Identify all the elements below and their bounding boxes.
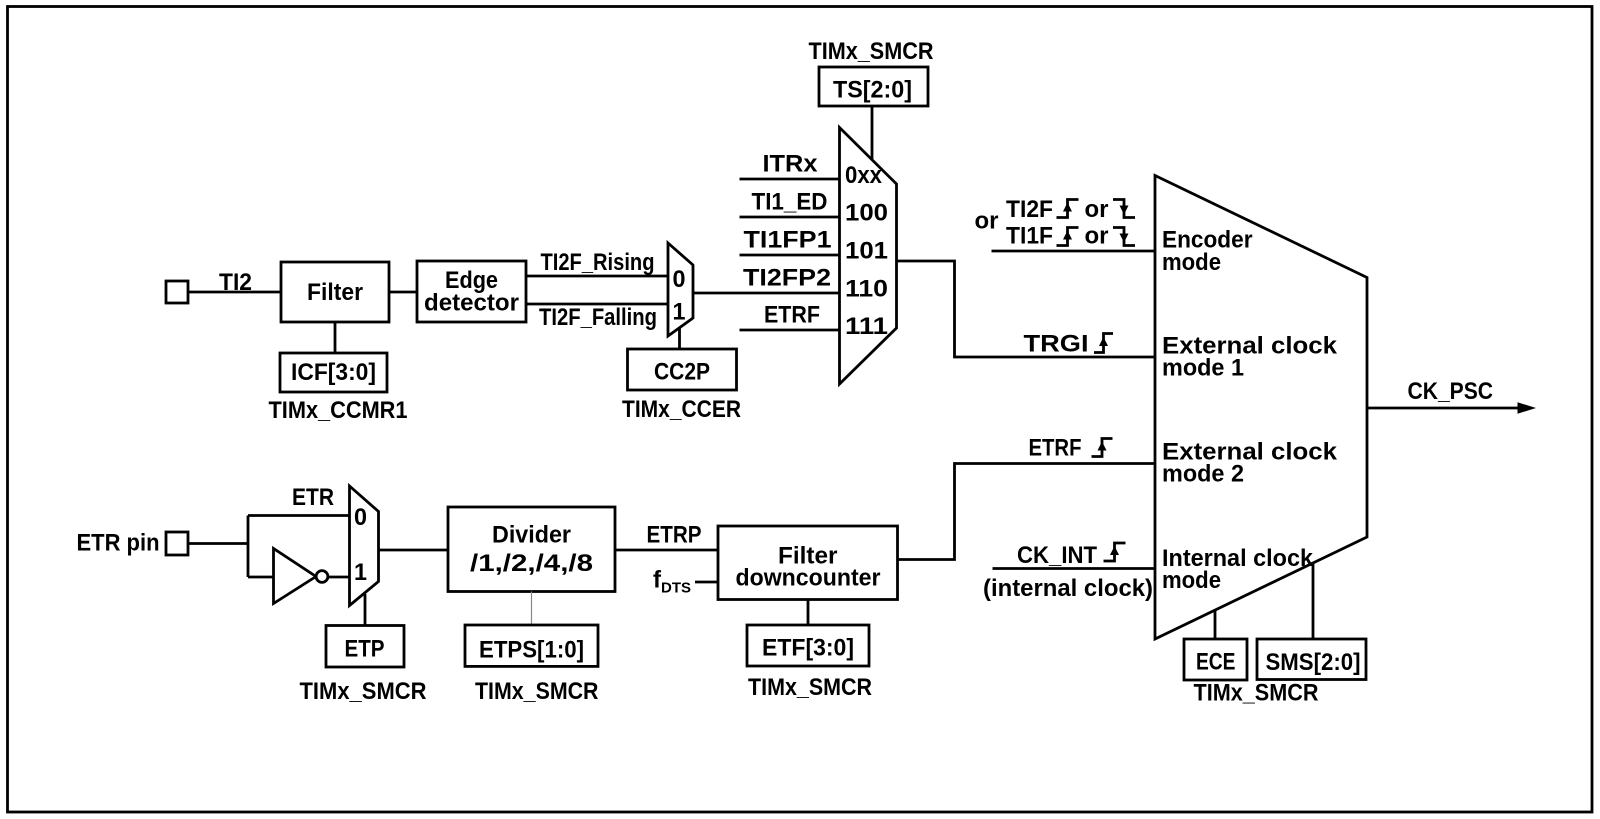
rising edge symbol (TI2F) (1057, 200, 1079, 218)
input pin TI2 (166, 281, 188, 303)
svg-text:detector: detector (424, 290, 519, 317)
svg-text:or: or (1085, 196, 1109, 223)
register box ECE (1184, 639, 1247, 680)
svg-text:mode: mode (1162, 249, 1221, 276)
register box ETPS[1:0] (465, 625, 598, 666)
svg-text:TIMx_SMCR: TIMx_SMCR (300, 678, 427, 705)
svg-text:1: 1 (354, 559, 367, 586)
svg-text:0: 0 (673, 266, 686, 293)
svg-text:0: 0 (354, 504, 367, 531)
wire mode selector to ECE register (1214, 610, 1217, 639)
wire f_DTS to filter downcounter (695, 581, 718, 584)
wire TI2F_Rising (526, 275, 668, 278)
svg-text:100: 100 (845, 200, 888, 227)
svg-text:Divider: Divider (492, 522, 571, 549)
svg-text:TI2F: TI2F (1006, 196, 1053, 223)
svg-text:fDTS: fDTS (653, 567, 691, 597)
rising edge symbol (ETRF) (1092, 439, 1113, 457)
wire TI1_ED input (740, 216, 840, 219)
svg-text:ETRF: ETRF (1029, 435, 1082, 462)
svg-text:CK_PSC: CK_PSC (1408, 378, 1494, 405)
svg-text:TI1FP1: TI1FP1 (744, 227, 832, 254)
svg-text:ETPS[1:0]: ETPS[1:0] (479, 637, 584, 664)
input pin ETR (166, 532, 188, 555)
wire TI2F_Falling (526, 303, 668, 306)
svg-text:TRGI: TRGI (1024, 331, 1089, 358)
register box ICF[3:0] (280, 353, 387, 392)
svg-text:or: or (1085, 223, 1109, 250)
svg-text:ICF[3:0]: ICF[3:0] (291, 359, 376, 386)
register box CC2P (628, 349, 737, 390)
svg-text:TI1F: TI1F (1006, 223, 1053, 250)
register box TS[2:0] (819, 67, 928, 106)
svg-text:ETRP: ETRP (647, 522, 702, 549)
wire ITRx input (740, 178, 840, 181)
svg-text:TI2FP2: TI2FP2 (743, 265, 831, 292)
svg-text:TIMx_SMCR: TIMx_SMCR (1194, 680, 1319, 707)
register box ETP (326, 626, 404, 668)
svg-text:mode 1: mode 1 (1162, 355, 1244, 382)
svg-text:ETR pin: ETR pin (77, 530, 160, 557)
junction vertical wire (247, 516, 250, 578)
wire to inverter input (248, 576, 274, 579)
svg-text:or: or (975, 208, 999, 235)
svg-text:TIMx_CCER: TIMx_CCER (622, 396, 741, 423)
svg-text:0xx: 0xx (845, 162, 883, 189)
wire TRGI (trigger mux output to mode selector) (897, 261, 1156, 357)
svg-text:/1,/2,/4,/8: /1,/2,/4,/8 (470, 550, 593, 577)
divider block /1,/2,/4,/8 (448, 507, 615, 592)
svg-text:ETRF: ETRF (764, 302, 820, 329)
mux trigger selector TS (840, 128, 897, 385)
register box ETF[3:0] (747, 625, 869, 666)
edge detector block (417, 261, 526, 322)
wire ETRF input to trigger mux (740, 329, 840, 332)
svg-text:TI1_ED: TI1_ED (752, 189, 828, 216)
filter F (input filter) (281, 262, 389, 322)
falling edge symbol (TI2F) (1113, 200, 1135, 218)
svg-text:111: 111 (845, 313, 888, 340)
svg-text:mode 2: mode 2 (1162, 461, 1244, 488)
svg-text:TI2: TI2 (219, 269, 252, 296)
wire inverter to polarity mux (328, 576, 350, 579)
svg-text:mode: mode (1162, 567, 1221, 594)
svg-text:TIMx_CCMR1: TIMx_CCMR1 (269, 397, 408, 424)
wire ETR mux to divider (379, 549, 449, 552)
svg-text:Filter: Filter (307, 279, 363, 306)
mux CC2P polarity selector (668, 243, 693, 336)
svg-text:TIMx_SMCR: TIMx_SMCR (809, 38, 934, 65)
rising edge symbol (CK_INT) (1104, 543, 1126, 561)
wire ETRP (divider to filter downcounter) (615, 549, 718, 552)
trapezoid clock mode selector (1155, 176, 1367, 640)
svg-text:(internal clock): (internal clock) (983, 575, 1153, 602)
falling edge symbol (TI1F) (1113, 228, 1135, 246)
wire filter downcounter to ETF register (807, 600, 810, 626)
svg-text:TI2F_Falling: TI2F_Falling (539, 304, 657, 331)
inverter (ETR polarity) (274, 549, 317, 604)
wire CK_PSC output with arrowhead (1367, 407, 1518, 410)
wire ETR pin to junction (188, 542, 248, 545)
svg-text:CK_INT: CK_INT (1017, 542, 1097, 569)
svg-text:CC2P: CC2P (654, 359, 710, 386)
svg-text:TI2F_Rising: TI2F_Rising (541, 249, 655, 276)
wire TS register to trigger mux (871, 106, 874, 160)
filter downcounter block (718, 526, 898, 600)
svg-text:ETP: ETP (345, 636, 385, 663)
wire ETR direct branch (248, 514, 350, 517)
rising edge symbol (TI1F) (1057, 228, 1079, 246)
svg-text:TIMx_SMCR: TIMx_SMCR (475, 678, 599, 705)
wire ETR mux to ETP register (364, 594, 367, 626)
svg-text:ITRx: ITRx (763, 151, 819, 178)
svg-text:1: 1 (673, 299, 686, 326)
rising edge symbol (TRGI) (1094, 334, 1113, 353)
wire divider to ETPS register (thin) (531, 592, 533, 626)
wire TI1FP1 input (740, 254, 840, 257)
svg-text:ETF[3:0]: ETF[3:0] (762, 635, 854, 662)
svg-text:101: 101 (845, 238, 888, 265)
wire TI2FP2 (polarity mux output to trigger mux) (693, 292, 840, 295)
wire CK_INT input (993, 567, 1156, 570)
svg-text:ETR: ETR (292, 484, 334, 511)
wire encoder mode input (992, 250, 1156, 253)
wire polarity mux to CC2P register (678, 328, 681, 349)
register box SMS[2:0] (1257, 639, 1366, 680)
wire Filter to Edge detector (389, 291, 417, 294)
svg-text:SMS[2:0]: SMS[2:0] (1266, 649, 1361, 676)
svg-text:TIMx_SMCR: TIMx_SMCR (748, 674, 872, 701)
svg-text:ECE: ECE (1196, 649, 1236, 676)
wire TI2 pin to Filter (188, 291, 281, 294)
mux ETR polarity selector (350, 486, 379, 606)
svg-text:downcounter: downcounter (736, 565, 881, 592)
wire Filter to ICF register (334, 322, 337, 353)
wire mode selector to SMS register (1312, 564, 1315, 639)
wire ETRF to mode selector (898, 464, 1156, 560)
svg-text:110: 110 (845, 276, 888, 303)
svg-text:TS[2:0]: TS[2:0] (833, 77, 912, 104)
